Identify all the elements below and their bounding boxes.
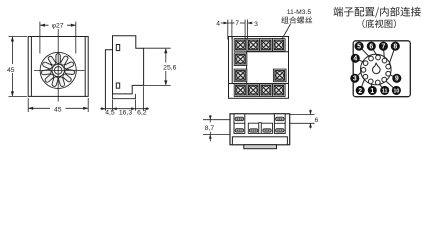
svg-text:2: 2: [358, 88, 362, 95]
svg-text:6: 6: [315, 117, 319, 124]
screw head right-top: [276, 117, 284, 121]
bottom view center post: [259, 123, 261, 134]
pin number badge 8: [391, 42, 400, 51]
svg-text:9: 9: [395, 76, 399, 83]
svg-text:45: 45: [54, 106, 62, 113]
svg-text:7: 7: [235, 20, 239, 27]
screw head midleft: [249, 129, 257, 132]
terminal screw top1: [234, 39, 247, 52]
dimension chain 4,5 16,3 6,2: [100, 86, 149, 116]
pin number badge 9: [392, 74, 401, 83]
socket circle centerlines: [34, 29, 85, 102]
svg-text:1: 1: [370, 88, 374, 95]
terminal screw left-mid1: [234, 53, 247, 66]
svg-text:11: 11: [382, 88, 388, 94]
svg-text:4: 4: [353, 56, 357, 63]
dimension phi27: [40, 21, 76, 54]
pin number badge 3: [350, 74, 359, 83]
screw head left-mid: [235, 129, 243, 132]
pin number badge 5: [355, 42, 364, 51]
screw head midright: [263, 129, 271, 132]
terminal screw bottom4: [273, 84, 286, 97]
pin number badge 6: [367, 42, 376, 51]
terminal screw bottom2: [247, 84, 260, 97]
front view plate outline: [28, 37, 88, 97]
label 11-M3.5 combination screw: [281, 9, 312, 39]
screw head right-mid: [276, 129, 284, 132]
bottom view left terminal block: [234, 114, 245, 134]
terminal screw top3: [260, 39, 273, 52]
pin diagram barrel circle: [361, 54, 392, 85]
socket pin holes: [361, 55, 390, 85]
side view base strip: [113, 94, 136, 99]
terminal screw left-mid2: [234, 69, 247, 82]
bottom view right terminal block: [274, 114, 285, 134]
svg-text:11-M3.5: 11-M3.5: [287, 9, 312, 16]
center keyhole: [373, 63, 381, 73]
svg-text:8,7: 8,7: [205, 125, 215, 132]
bottom view middle cavity left: [248, 123, 258, 133]
svg-text:4: 4: [216, 21, 220, 28]
svg-text:10: 10: [393, 88, 399, 94]
socket outer circle: [40, 52, 76, 88]
svg-text:16,3: 16,3: [119, 109, 132, 116]
dimension chain 4 7 3: [216, 20, 258, 40]
side view latch window upper: [116, 45, 119, 51]
dimension 45 left: [4, 37, 28, 97]
svg-text:25,6: 25,6: [163, 65, 176, 72]
svg-text:8: 8: [393, 44, 397, 51]
terminal screw bottom3: [260, 84, 273, 97]
bottom view base plate: [232, 137, 287, 145]
svg-text:3: 3: [254, 21, 258, 28]
pin diagram body: [353, 41, 410, 97]
pin number badge 10: [392, 86, 401, 95]
pin diagram title line1: [333, 7, 420, 18]
svg-text:φ27: φ27: [52, 23, 64, 30]
dimension 25,6: [144, 48, 179, 85]
terminal screw top4: [273, 39, 286, 52]
bottom view foot: [244, 145, 277, 149]
svg-text:6: 6: [369, 44, 373, 51]
svg-text:3: 3: [353, 76, 357, 83]
socket hub circles: [52, 64, 64, 76]
svg-text:6,2: 6,2: [137, 109, 147, 116]
terminal screw top2: [247, 39, 260, 52]
svg-text:7: 7: [381, 44, 385, 51]
dimension 8,7: [202, 115, 230, 141]
terminal screw right-mid: [273, 69, 286, 82]
dimension 45 bottom: [28, 98, 88, 113]
pin number badge 7: [379, 42, 388, 51]
pin number badge 1: [368, 86, 377, 95]
screw head left-top: [235, 117, 243, 121]
svg-text:4,5: 4,5: [105, 109, 115, 116]
side view flange: [105, 50, 112, 111]
pin connector lines: [355, 46, 397, 90]
pin number badge 4: [351, 54, 360, 63]
svg-text:5: 5: [357, 44, 361, 51]
side view latch window lower: [116, 83, 119, 88]
terminal view outer plate: [229, 37, 289, 99]
pin diagram title line2: [362, 19, 396, 28]
svg-text:45: 45: [7, 67, 15, 74]
socket contact slots: [42, 54, 75, 87]
bottom view middle cavity right: [261, 123, 272, 133]
terminal screw bottom1: [234, 84, 247, 97]
side view body outline: [113, 36, 144, 94]
dimension 6: [290, 110, 319, 129]
pin number badge 11: [380, 86, 389, 95]
bottom view outer case: [230, 114, 290, 145]
pin number badge 2: [356, 86, 365, 95]
